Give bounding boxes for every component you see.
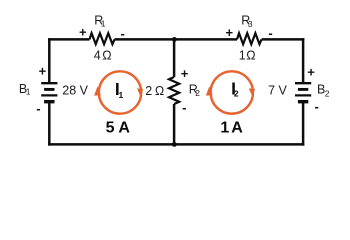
wire middle vertical upper (top node to R2)	[173, 39, 176, 77]
svg-text:4: 4	[94, 48, 101, 62]
wire right vertical lower (B2 negative plate to corner)	[302, 102, 305, 146]
label R2	[189, 82, 200, 98]
svg-text:1: 1	[220, 120, 229, 137]
svg-text:-: -	[268, 25, 272, 40]
svg-text:Ω: Ω	[246, 48, 255, 62]
svg-text:+: +	[39, 64, 47, 79]
resistor R2 (middle branch, vertical)	[169, 77, 179, 104]
svg-text:-: -	[121, 26, 125, 41]
svg-text:28 V: 28 V	[62, 83, 88, 97]
svg-text:2: 2	[234, 89, 239, 99]
wire top-left segment (node A to R1)	[48, 38, 89, 41]
svg-text:7 V: 7 V	[268, 83, 287, 97]
label B2	[317, 82, 330, 98]
wire bottom rail	[48, 143, 304, 146]
svg-text:+: +	[79, 25, 87, 40]
node: bottom junction dot	[172, 142, 177, 147]
node: top junction dot	[172, 37, 177, 42]
wire left vertical lower (B1 negative plate to corner)	[48, 102, 51, 146]
label B1	[19, 82, 31, 96]
mesh current loop I2 (clockwise arrow circle)	[206, 71, 255, 113]
value 1 ohm	[239, 48, 256, 62]
svg-text:2: 2	[195, 88, 200, 98]
svg-text:2: 2	[145, 84, 152, 98]
svg-text:5 A: 5 A	[106, 120, 131, 137]
svg-text:-: -	[36, 101, 40, 116]
svg-text:+: +	[226, 25, 234, 40]
wire right vertical upper (corner to B2 positive plate)	[302, 38, 305, 83]
wire top-right segment (R3 to corner)	[262, 38, 305, 41]
value 2 ohm	[145, 84, 164, 98]
battery B2 (7 V source, right branch)	[295, 83, 311, 102]
label R3	[241, 13, 253, 29]
svg-text:1: 1	[101, 19, 106, 29]
svg-text:1: 1	[26, 86, 31, 96]
svg-text:-: -	[315, 99, 319, 114]
wire top-middle segment (R1 to R3)	[115, 38, 238, 41]
svg-text:Ω: Ω	[102, 48, 111, 62]
svg-text:A: A	[231, 120, 243, 137]
svg-text:Ω: Ω	[155, 84, 164, 98]
svg-text:+: +	[181, 66, 189, 81]
svg-text:1: 1	[239, 48, 246, 62]
label I2	[231, 78, 239, 98]
wire middle vertical lower (R2 to bottom node)	[173, 104, 176, 144]
resistor R3	[237, 33, 262, 44]
svg-text:-: -	[182, 100, 186, 115]
label I1	[115, 79, 124, 100]
value 4 ohm	[94, 48, 112, 62]
svg-text:+: +	[307, 65, 315, 80]
mesh current loop I1 (clockwise arrow circle)	[94, 71, 143, 113]
svg-text:2: 2	[325, 89, 330, 99]
value 1 A (mesh current 2)	[220, 120, 243, 137]
svg-text:1: 1	[119, 90, 124, 100]
svg-text:3: 3	[248, 19, 253, 29]
label R1	[94, 13, 106, 28]
resistor R1	[90, 33, 115, 44]
wire left vertical upper (corner to B1 positive plate)	[48, 38, 51, 83]
battery B1 (28 V source, left branch)	[41, 83, 57, 102]
